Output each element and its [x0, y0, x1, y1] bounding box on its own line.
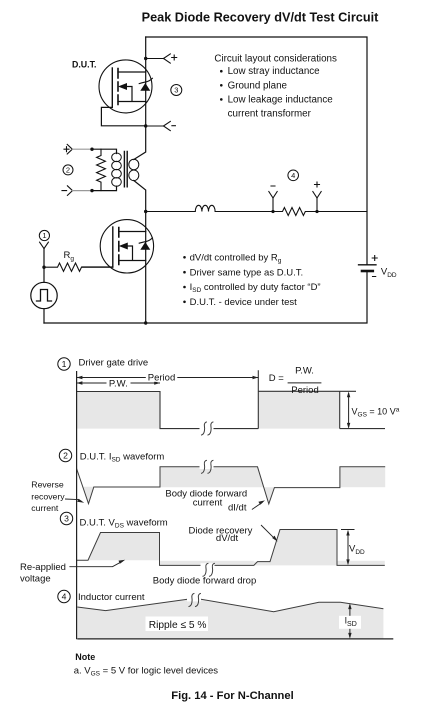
svg-text:Ground plane: Ground plane [228, 80, 288, 91]
svg-text:Reverse: Reverse [31, 479, 64, 489]
svg-text:P.W.: P.W. [109, 379, 128, 390]
svg-text:Period: Period [148, 372, 175, 383]
svg-text:2: 2 [66, 166, 70, 175]
svg-text:recovery: recovery [31, 492, 65, 502]
svg-text:D.U.T. ISD waveform: D.U.T. ISD waveform [80, 452, 165, 464]
svg-text:Note: Note [75, 652, 95, 662]
svg-text:Driver same type as D.U.T.: Driver same type as D.U.T. [190, 267, 304, 278]
svg-text:4: 4 [62, 592, 67, 602]
svg-text:Driver gate drive: Driver gate drive [79, 357, 149, 368]
svg-text:4: 4 [291, 171, 295, 180]
svg-text:Low stray inductance: Low stray inductance [228, 66, 321, 77]
svg-text:D.U.T. VDS waveform: D.U.T. VDS waveform [80, 518, 168, 530]
svg-text:D =: D = [269, 373, 285, 384]
svg-text:current: current [31, 503, 59, 513]
svg-text:current: current [193, 497, 223, 508]
svg-text:1: 1 [42, 231, 46, 240]
svg-text:3: 3 [174, 86, 178, 95]
svg-text:Body diode forward drop: Body diode forward drop [153, 575, 257, 586]
svg-text:current transformer: current transformer [228, 109, 312, 120]
svg-text:dV/dt controlled by Rg: dV/dt controlled by Rg [190, 252, 282, 264]
svg-text:Ripple ≤ 5 %: Ripple ≤ 5 % [149, 620, 207, 631]
svg-text:D.U.T. - device under test: D.U.T. - device under test [190, 297, 298, 308]
svg-text:Re-applied: Re-applied [20, 562, 66, 573]
svg-text:2: 2 [63, 451, 68, 461]
svg-text:Circuit layout considerations: Circuit layout considerations [214, 53, 337, 64]
svg-text:voltage: voltage [20, 573, 51, 584]
svg-text:ISD controlled by duty factor: ISD controlled by duty factor “D” [190, 282, 321, 294]
svg-text:Period: Period [291, 385, 318, 396]
svg-text:3: 3 [64, 514, 69, 524]
svg-text:Peak Diode Recovery dV/dt Test: Peak Diode Recovery dV/dt Test Circuit [142, 10, 379, 24]
svg-text:Low leakage inductance: Low leakage inductance [228, 94, 334, 105]
svg-text:Fig. 14 - For N-Channel: Fig. 14 - For N-Channel [171, 690, 293, 702]
svg-text:dI/dt: dI/dt [228, 503, 247, 514]
svg-text:dV/dt: dV/dt [216, 533, 239, 544]
svg-text:D.U.T.: D.U.T. [72, 60, 96, 70]
svg-text:1: 1 [62, 359, 67, 369]
svg-text:P.W.: P.W. [295, 366, 314, 377]
svg-text:Inductor current: Inductor current [78, 592, 145, 603]
